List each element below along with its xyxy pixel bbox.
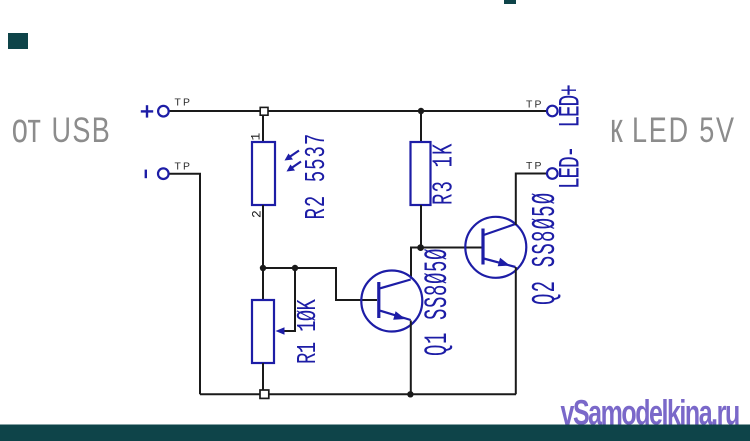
- junction square on bottom rail at R1: [260, 390, 269, 398]
- terminal TP- minus sign: [145, 170, 147, 179]
- svg-text:R1 1ØK: R1 1ØK: [294, 299, 324, 364]
- wire: mid horizontal to Q1 base: [263, 268, 377, 300]
- transistor Q2 circle: [465, 217, 526, 278]
- svg-text:USB: USB: [52, 110, 112, 149]
- transistor Q1 circle: [361, 271, 422, 332]
- node: collector junction dot: [417, 244, 424, 251]
- svg-text:к: к: [610, 103, 623, 151]
- svg-text:LED-: LED-: [555, 147, 588, 189]
- transistor Q1 collector line: [380, 280, 411, 289]
- terminal LED- circle: [547, 168, 558, 179]
- player UI top-center dash: [504, 0, 516, 4]
- wire: R2 bottom lead: [262, 205, 264, 268]
- potentiometer R1 body: [252, 300, 274, 363]
- svg-text:TP: TP: [175, 161, 193, 172]
- R1 wiper arrowhead: [276, 327, 285, 335]
- node: top rail R3 junction dot: [418, 108, 424, 114]
- transistor Q1 emitter arrowhead: [393, 311, 405, 320]
- svg-text:LED 5V: LED 5V: [632, 110, 736, 149]
- transistor Q2 base bar: [481, 229, 484, 265]
- node: wiper junction dot: [292, 265, 298, 271]
- terminal TP+ plus sign: [141, 105, 153, 117]
- svg-text:LED+: LED+: [555, 85, 588, 127]
- terminal LED+ circle: [547, 106, 558, 117]
- wire: R2 top lead: [262, 115, 264, 142]
- wire: bottom rail: [200, 393, 516, 395]
- svg-text:от: от: [12, 103, 41, 151]
- wire: R1 top lead: [262, 268, 264, 300]
- transistor Q2 emitter line: [484, 259, 516, 268]
- svg-text:Q1 SS8Ø5Ø: Q1 SS8Ø5Ø: [419, 248, 456, 356]
- transistor Q1 emitter line: [380, 311, 411, 321]
- transistor Q2 collector line: [484, 224, 516, 235]
- player UI bottom bar: [0, 425, 750, 441]
- wire: R3 top lead: [420, 111, 422, 142]
- player UI square top-left: [8, 33, 28, 49]
- wire: Q2 collector to LED-: [516, 174, 547, 226]
- wire: junction to Q1 collector: [411, 248, 421, 279]
- transistor Q2 emitter arrowhead: [498, 258, 510, 267]
- node: R2/R1 junction dot: [260, 265, 266, 271]
- svg-text:1: 1: [249, 133, 264, 141]
- wire: Q1 emitter to bottom rail: [410, 321, 412, 395]
- photoresistor R2 body: [252, 142, 275, 205]
- terminal TP- circle: [158, 168, 169, 179]
- junction square on top rail at R2: [260, 107, 268, 115]
- wire: junction to Q2 base: [421, 247, 482, 249]
- terminal TP+ circle: [158, 106, 169, 117]
- photoresistor R2 light arrows: [285, 151, 302, 172]
- resistor R3 body: [411, 142, 431, 205]
- wire: R1 bottom lead: [262, 363, 264, 390]
- node: Q1 emitter bottom rail dot: [407, 391, 413, 397]
- svg-text:Q2 SS8Ø5Ø: Q2 SS8Ø5Ø: [527, 192, 565, 305]
- svg-text:TP: TP: [526, 161, 544, 172]
- svg-text:R3 1K: R3 1K: [429, 142, 461, 205]
- wire: minus terminal to left rail: [170, 174, 201, 395]
- svg-text:TP: TP: [175, 98, 193, 109]
- svg-text:TP: TP: [526, 100, 544, 111]
- wire: R3 bottom lead: [420, 205, 422, 248]
- svg-text:R2 5537: R2 5537: [302, 133, 334, 220]
- wire: Q2 emitter to bottom rail: [515, 267, 517, 394]
- wire: R1 wiper lead: [281, 268, 295, 331]
- node: +5V top rail wire: [169, 110, 547, 112]
- transistor Q1 base bar: [377, 282, 380, 318]
